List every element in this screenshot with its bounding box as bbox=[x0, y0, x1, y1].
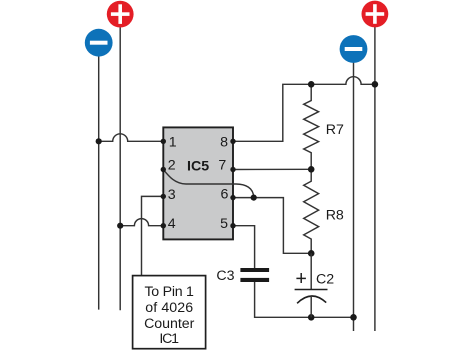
C2 polarity + mark bbox=[296, 273, 306, 283]
IC5 pin 4 bbox=[161, 216, 176, 232]
svg-text:5: 5 bbox=[220, 216, 228, 232]
wire: bottom rail from C3 to right -V rail bbox=[255, 282, 354, 317]
capacitor C3 bbox=[240, 268, 269, 282]
wire: pin 6 to R8 bottom node bbox=[233, 198, 311, 254]
svg-text:C3: C3 bbox=[216, 268, 234, 284]
note box: To Pin 1 of 4026 Counter IC1 bbox=[133, 276, 206, 349]
resistor R7 bbox=[304, 84, 319, 169]
svg-text:R8: R8 bbox=[326, 208, 344, 224]
wire: pin 7 to R7/R8 junction bbox=[233, 168, 311, 170]
svg-text:6: 6 bbox=[221, 187, 229, 203]
wire: pin 8 up and right to +V rail (jump over -V rail) bbox=[233, 77, 375, 142]
svg-text:R7: R7 bbox=[326, 122, 344, 138]
wire: right +V rail bbox=[374, 27, 376, 331]
svg-text:To Pin 1: To Pin 1 bbox=[144, 284, 194, 300]
IC5 pin 3 bbox=[161, 187, 176, 203]
power -V terminal (right) bbox=[340, 35, 368, 63]
svg-text:of 4026: of 4026 bbox=[145, 300, 193, 316]
capacitor C2 (polarized) bbox=[295, 253, 328, 317]
svg-text:4: 4 bbox=[168, 216, 176, 232]
junction R7 top bbox=[308, 81, 315, 88]
power +V terminal (left) bbox=[107, 1, 134, 28]
IC5 pin 2 bbox=[161, 158, 176, 174]
junction R7/R8 bbox=[308, 166, 315, 173]
svg-text:3: 3 bbox=[168, 187, 176, 203]
svg-text:8: 8 bbox=[220, 135, 228, 151]
junction on left -V rail bbox=[96, 138, 102, 144]
svg-text:1: 1 bbox=[169, 135, 177, 151]
wire: right -V rail bbox=[353, 62, 355, 331]
junction bottom rail to right -V rail bbox=[350, 314, 357, 321]
power +V terminal (right) bbox=[362, 1, 389, 28]
IC5 pin 5 bbox=[220, 216, 236, 232]
junction on right +V rail bbox=[372, 81, 379, 88]
junction C2 negative to bottom rail bbox=[308, 314, 315, 321]
svg-text:2: 2 bbox=[168, 158, 176, 174]
IC5 pin 6 bbox=[221, 187, 236, 203]
junction on left +V rail bbox=[117, 223, 123, 229]
power -V terminal (left) bbox=[85, 29, 113, 57]
svg-text:IC1: IC1 bbox=[159, 331, 179, 347]
IC5 pin 8 bbox=[220, 135, 236, 151]
wire: pin 5 down through C3 to bottom rail bbox=[233, 226, 255, 268]
wire: pin 4 to left +V rail (jump over box wire) bbox=[120, 219, 163, 226]
wire: pin 3 down to note box bbox=[142, 196, 164, 275]
wire: left -V rail bbox=[98, 56, 100, 310]
IC5 pin 7 bbox=[218, 158, 235, 174]
resistor R8 bbox=[304, 169, 319, 253]
svg-text:IC5: IC5 bbox=[187, 158, 209, 174]
svg-text:7: 7 bbox=[218, 158, 226, 174]
IC5 pin 1 bbox=[161, 135, 177, 151]
wire: left +V rail bbox=[119, 27, 121, 310]
wire: pin 2 curve to pin 6 node bbox=[163, 170, 253, 198]
IC U5 body bbox=[163, 127, 233, 239]
wire: pin 1 to left -V rail (jump over +V rail) bbox=[99, 134, 164, 141]
junction R8 bottom bbox=[308, 250, 315, 257]
svg-text:Counter: Counter bbox=[144, 316, 194, 332]
junction node pin6/pin2 bbox=[251, 195, 257, 201]
svg-text:C2: C2 bbox=[316, 271, 334, 287]
